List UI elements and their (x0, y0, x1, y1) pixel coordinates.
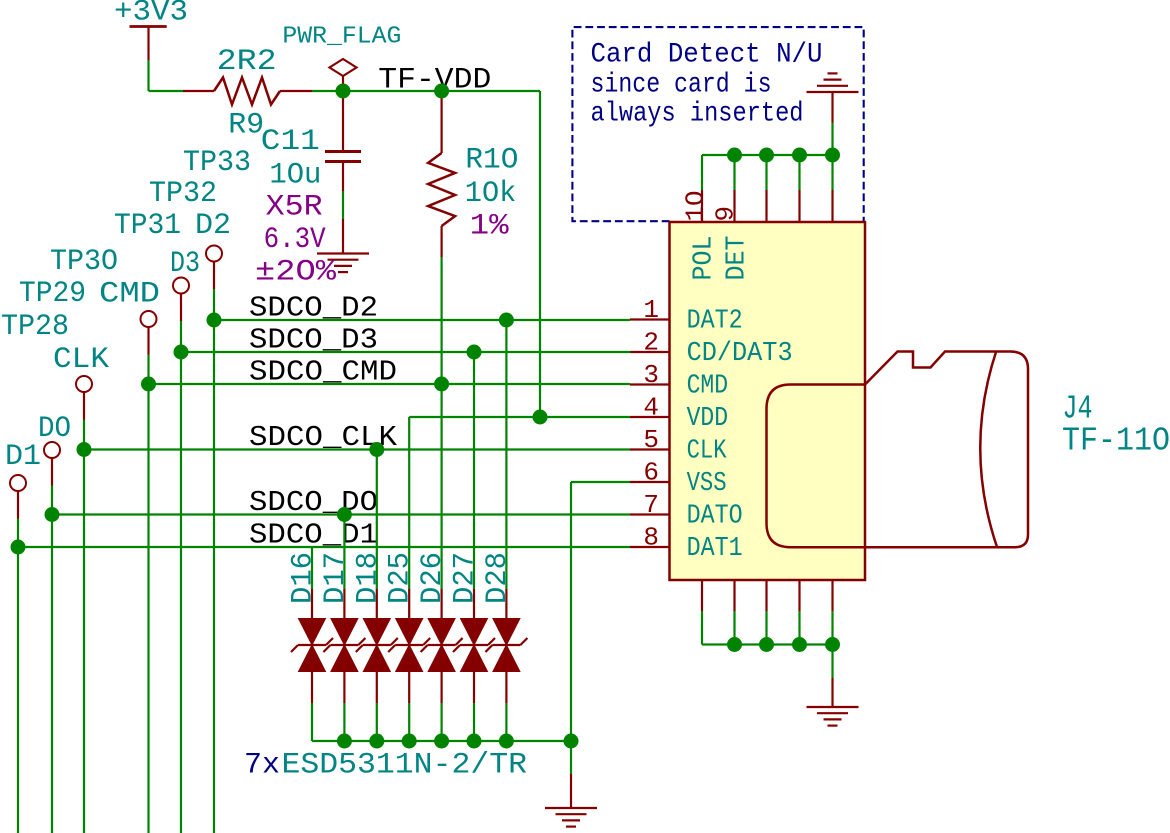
svg-text:DO: DO (38, 412, 71, 446)
svg-text:R9: R9 (228, 109, 264, 143)
ground above card-detect bus (inverted) (831, 123, 833, 156)
svg-text:always inserted: always inserted (591, 99, 804, 130)
wire net VSS (pin 6) (571, 481, 630, 483)
mounting pad 2 (bottom) of J4 (733, 580, 735, 611)
wire D16 cathode to bus (311, 703, 313, 741)
wire top pin 2 to bus (765, 155, 767, 190)
wire top pin 1 to bus (733, 155, 735, 190)
junction TF-VDD at VDD wire (533, 410, 548, 425)
junction TF-VDD at R10 (434, 84, 449, 99)
note box: Card Detect N/U (dashed) (572, 27, 863, 221)
wire D18 cathode to bus (376, 703, 378, 741)
wire top pin 3 to bus (798, 155, 800, 190)
wire D28 cathode to bus (505, 703, 507, 741)
svg-text:D27: D27 (449, 552, 483, 604)
svg-text:SDCO_CMD: SDCO_CMD (249, 356, 397, 389)
ground under ESD bus (570, 774, 572, 808)
pin 9 (top) of J4 (733, 190, 735, 222)
junction TP28 net (11, 540, 26, 555)
pin 7 (DAT0) of J4 (630, 513, 670, 515)
microSD card outline (J4 graphic) (767, 352, 1029, 548)
diode D25 (bidirectional TVS) (408, 589, 410, 619)
diode D26 (bidirectional TVS) (441, 589, 443, 619)
wire +3V3 vertical (147, 60, 149, 91)
junction D27 tap (467, 345, 482, 360)
svg-text:SDCO_DO: SDCO_DO (249, 486, 378, 519)
svg-text:POL: POL (690, 236, 720, 281)
svg-text:VSS: VSS (687, 469, 727, 499)
wire D26 cathode to bus (441, 703, 443, 741)
wire D26 anode to net (441, 384, 443, 589)
pin 4 (VDD) of J4 (630, 416, 670, 418)
svg-text:7: 7 (643, 490, 659, 520)
svg-text:D18: D18 (351, 552, 385, 604)
pin pad (top) of J4 (831, 190, 833, 222)
wire D16 anode to net (311, 547, 313, 589)
junction D27 on GND bus (467, 734, 482, 749)
junction bottom shield bus (759, 637, 774, 652)
svg-text:D16: D16 (287, 552, 321, 604)
wire net SDC0_CMD (149, 383, 631, 385)
wire TP32 net vertical (180, 321, 182, 833)
junction TP29 net (45, 507, 60, 522)
wire shield bus to ground (831, 645, 833, 679)
junction card-detect bus (825, 148, 840, 163)
junction bottom shield bus (727, 637, 742, 652)
wire R9 to TF-VDD node (312, 90, 540, 92)
svg-text:2: 2 (643, 328, 659, 358)
ground under C11 (342, 219, 344, 254)
svg-text:D28: D28 (481, 552, 515, 604)
junction D28 tap (499, 313, 514, 328)
resistor R9 2R2 (183, 90, 214, 92)
junction TF-VDD at C11 (336, 84, 351, 99)
wire TP31 net vertical (147, 355, 149, 833)
power flag PWR_FLAG (330, 59, 357, 76)
wire TP33 net vertical (213, 289, 215, 833)
svg-text:1Ok: 1Ok (465, 177, 517, 211)
svg-text:CD/DAT3: CD/DAT3 (687, 339, 793, 369)
svg-text:DATO: DATO (687, 502, 743, 532)
junction TP33 net (207, 313, 222, 328)
pin 1 (DAT2) of J4 (630, 318, 670, 320)
svg-text:SDCO_D3: SDCO_D3 (249, 324, 378, 357)
svg-text:CMD: CMD (687, 372, 729, 402)
pin pad (top) of J4 (798, 190, 800, 222)
junction D26 tap (434, 377, 449, 392)
wire bottom shield bus (702, 643, 833, 645)
junction card-detect bus (727, 148, 742, 163)
connector J4 body (yellow box) (670, 222, 866, 580)
svg-text:5: 5 (643, 425, 659, 455)
junction D17 on GND bus (337, 734, 352, 749)
junction D18 tap (369, 442, 384, 457)
wire VSS down to GND bus (570, 482, 572, 741)
svg-text:DET: DET (723, 236, 753, 281)
capacitor C11 (342, 91, 344, 151)
wire bottom pad 3 to bus (765, 611, 767, 645)
wire C11 to GND (342, 191, 344, 219)
svg-text:TP32: TP32 (149, 177, 217, 211)
wire ESD GND bus (312, 740, 571, 742)
svg-text:SDCO_D1: SDCO_D1 (249, 519, 378, 552)
svg-text:3: 3 (643, 360, 659, 390)
svg-text:VDD: VDD (687, 404, 729, 434)
svg-text:CLK: CLK (687, 437, 728, 467)
test point TP30 (76, 376, 92, 392)
svg-text:D3: D3 (170, 247, 200, 281)
pin 2 (CD/DAT3) of J4 (630, 351, 670, 353)
wire D25 anode to net (408, 417, 410, 589)
resistor R10 10k pull-up (441, 91, 443, 153)
junction D26 on GND bus (434, 734, 449, 749)
svg-text:4: 4 (643, 393, 659, 423)
svg-text:1O: 1O (681, 191, 711, 222)
svg-text:1: 1 (643, 295, 659, 325)
wire D27 cathode to bus (473, 703, 475, 741)
svg-text:C11: C11 (261, 125, 320, 159)
wire TF-VDD down to VDD pin (539, 91, 541, 417)
diode D27 (bidirectional TVS) (473, 589, 475, 619)
svg-text:TF-11O: TF-11O (1062, 423, 1170, 460)
wire D27 anode to net (473, 352, 475, 589)
pin pad (top) of J4 (765, 190, 767, 222)
test point TP33 (206, 246, 222, 262)
wire TP29 net vertical (51, 486, 53, 833)
svg-text:1%: 1% (470, 210, 510, 244)
svg-text:TP29: TP29 (19, 277, 86, 311)
diode D16 (bidirectional TVS) (311, 589, 313, 619)
test point TP31 (141, 311, 157, 327)
wire TP30 net vertical (83, 420, 85, 833)
wire card-detect bus (702, 154, 833, 156)
svg-text:2R2: 2R2 (217, 45, 277, 79)
svg-text:D2: D2 (195, 209, 231, 243)
junction bottom shield bus (792, 637, 807, 652)
power symbol +3V3 (130, 25, 167, 28)
pin 6 (VSS) of J4 (630, 481, 670, 483)
wire bottom pad 4 to bus (798, 611, 800, 645)
diode D17 (bidirectional TVS) (343, 589, 345, 619)
junction card-detect bus (792, 148, 807, 163)
svg-text:D25: D25 (384, 552, 418, 604)
svg-text:SDCO_D2: SDCO_D2 (249, 292, 378, 325)
pin 5 (CLK) of J4 (630, 448, 670, 450)
wire net SDC0_D0 (52, 513, 630, 515)
wire bottom pad 1 to bus (701, 611, 703, 645)
svg-text:X5R: X5R (266, 191, 323, 225)
svg-text:PWR_FLAG: PWR_FLAG (282, 24, 401, 51)
svg-text:R1O: R1O (465, 144, 518, 178)
svg-text:D1: D1 (5, 440, 41, 474)
svg-text:7x: 7x (244, 749, 280, 783)
test point TP28 (10, 475, 26, 491)
test point TP32 (173, 278, 189, 294)
junction D17 tap (337, 507, 352, 522)
wire net SDC0_CLK (84, 448, 630, 450)
wire R10 to SDC0_CMD (441, 257, 443, 384)
pin 10 (top) of J4 (701, 190, 703, 222)
wire VSS bus to ground (570, 741, 572, 774)
svg-text:TP28: TP28 (1, 310, 69, 344)
svg-text:D26: D26 (416, 552, 450, 604)
wire top pin 0 to bus (701, 155, 703, 190)
svg-text:TP33: TP33 (183, 146, 251, 180)
wire D28 anode to net (505, 320, 507, 589)
svg-text:DAT1: DAT1 (687, 534, 743, 564)
wire D17 cathode to bus (343, 703, 345, 741)
pin 8 (DAT1) of J4 (630, 546, 670, 548)
svg-text:Card Detect N/U: Card Detect N/U (591, 40, 823, 71)
mounting pad 1 (bottom) of J4 (701, 580, 703, 611)
mounting pad 3 (bottom) of J4 (765, 580, 767, 611)
wire D18 anode to net (376, 450, 378, 590)
test point TP29 (44, 442, 60, 458)
microSD card inner curve (980, 352, 997, 547)
svg-text:±2O%: ±2O% (255, 256, 337, 290)
mounting pad 5 (bottom) of J4 (831, 580, 833, 611)
junction TP32 net (174, 345, 189, 360)
svg-text:6: 6 (643, 458, 659, 488)
wire bottom pad 5 to bus (831, 611, 833, 645)
diode D28 (bidirectional TVS) (505, 589, 507, 619)
wire TP28 net vertical (17, 519, 19, 833)
junction TP31 net (141, 377, 156, 392)
junction D28 on GND bus (499, 734, 514, 749)
svg-text:D17: D17 (319, 552, 353, 604)
mounting pad 4 (bottom) of J4 (798, 580, 800, 611)
wire +3V3 to R9 (149, 90, 184, 92)
wire net VDD (pin 4) (409, 416, 630, 418)
svg-text:1Ou: 1Ou (269, 159, 321, 193)
junction TP30 net (77, 442, 92, 457)
svg-text:since card is: since card is (591, 70, 772, 101)
wire D25 cathode to bus (408, 703, 410, 741)
wire net SDC0_D2 (214, 319, 630, 321)
ground under connector (831, 678, 833, 707)
svg-text:+3V3: +3V3 (114, 0, 188, 30)
svg-text:9: 9 (711, 206, 741, 222)
svg-text:CLK: CLK (53, 343, 109, 377)
junction VSS on GND bus (564, 734, 579, 749)
pin 3 (CMD) of J4 (630, 383, 670, 385)
svg-text:DAT2: DAT2 (687, 307, 743, 337)
diode D18 (bidirectional TVS) (376, 589, 378, 619)
wire bottom pad 2 to bus (733, 611, 735, 645)
svg-text:ESD5311N-2/TR: ESD5311N-2/TR (282, 749, 528, 783)
wire net SDC0_D3 (181, 351, 630, 353)
wire D17 anode to net (343, 515, 345, 590)
junction D25 on GND bus (402, 734, 417, 749)
svg-text:TP3O: TP3O (50, 245, 118, 279)
svg-text:CMD: CMD (99, 278, 160, 312)
junction card-detect bus (759, 148, 774, 163)
junction bottom shield bus (825, 637, 840, 652)
svg-text:6.3V: 6.3V (264, 223, 326, 257)
wire net SDC0_D1 (18, 546, 630, 548)
junction D18 on GND bus (369, 734, 384, 749)
svg-text:8: 8 (643, 523, 659, 553)
svg-text:TP31: TP31 (114, 209, 181, 243)
wire top pin 4 to bus (831, 155, 833, 190)
